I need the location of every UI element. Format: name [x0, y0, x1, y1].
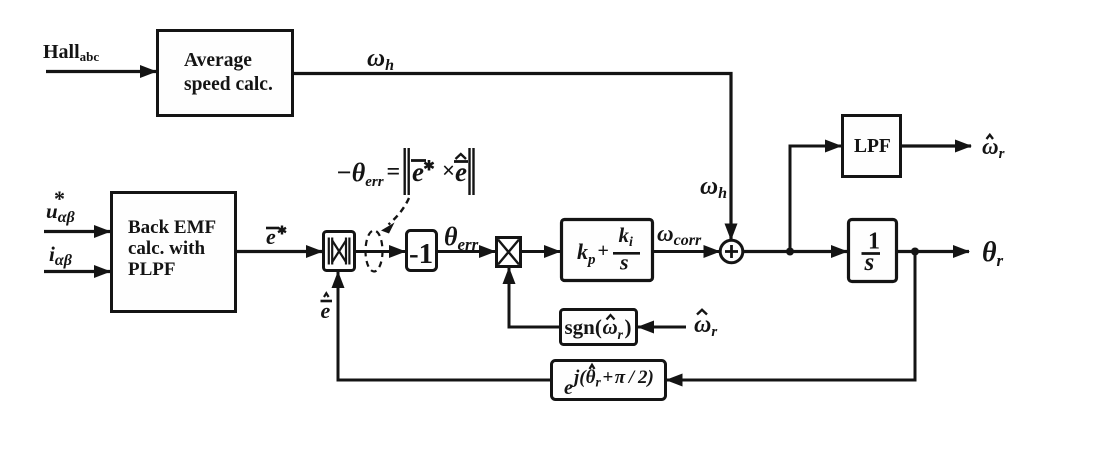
node omega_r_hat output label: [982, 134, 1005, 162]
svg-text:j(θr + π / 2): j(θr + π / 2): [571, 367, 654, 390]
svg-text:Average: Average: [184, 50, 252, 71]
svg-text:PLPF: PLPF: [128, 259, 176, 280]
wire multiplier to PI controller: [521, 250, 560, 253]
svg-text:ωcorr: ωcorr: [657, 221, 702, 249]
wire theta_err from -1 gain to multiplier: [437, 250, 495, 253]
summing junction: [720, 240, 743, 263]
block LPF: [843, 116, 901, 177]
svg-text:sgn(: sgn(: [565, 315, 602, 339]
node e-bar-star label: [266, 224, 286, 249]
svg-text:Back EMF: Back EMF: [128, 217, 216, 238]
node junction dot after integrator: [911, 248, 919, 256]
svg-text:s: s: [864, 249, 875, 276]
svg-text:e: e: [564, 377, 573, 399]
svg-text:-1: -1: [409, 238, 433, 270]
svg-text:ωr: ωr: [694, 312, 717, 340]
block gain -1: [407, 231, 437, 271]
wire LPF to omega_r_hat output: [901, 144, 971, 147]
node u*_alphabeta input label: [46, 186, 76, 226]
wire sgn block to multiplier: [509, 268, 560, 327]
wire Hall_abc to Average speed calc.: [46, 70, 156, 73]
block Back EMF calc. with PLPF: [112, 193, 236, 312]
node omega_r_hat label near sgn: [694, 310, 717, 340]
wire branch up to LPF: [790, 146, 841, 252]
wire e* from Back EMF block to cross-product block: [236, 250, 322, 253]
svg-text:*: *: [54, 186, 65, 211]
svg-text:θr: θr: [982, 237, 1004, 270]
wire summing junction to integrator 1/s: [743, 250, 848, 253]
node junction dot before LPF branch: [786, 248, 794, 256]
svg-text:iαβ: iαβ: [49, 242, 73, 269]
svg-text:LPF: LPF: [854, 136, 891, 157]
wire feedback theta_r down to exp block: [667, 252, 916, 381]
block multiplier: [497, 238, 521, 267]
svg-text:): ): [625, 315, 632, 339]
svg-text:s: s: [619, 250, 629, 275]
wire cross-product block to -1 gain: [355, 250, 405, 253]
wire i_alphabeta to Back EMF block: [44, 270, 110, 273]
wire omega_h from Average speed calc. to summing junction: [292, 74, 731, 240]
svg-text:calc. with: calc. with: [128, 238, 205, 259]
block exp j(theta_r + pi/2): [552, 361, 666, 400]
annotation dashed arrow from formula to ellipse: [381, 198, 409, 234]
block integrator 1/s: [849, 220, 897, 282]
annotation dashed ellipse: [366, 231, 383, 272]
block PI controller kp+ki/s: [562, 220, 653, 281]
svg-text:speed calc.: speed calc.: [184, 74, 273, 95]
svg-text:+: +: [598, 240, 609, 262]
wire integrator to theta_r output: [897, 250, 969, 253]
svg-text:ωh: ωh: [367, 45, 394, 74]
wire omega_r_hat into sgn block: [638, 326, 686, 329]
svg-text:ω: ω: [603, 315, 618, 339]
block cross-product norm: [324, 232, 355, 271]
svg-text:−θerr: −θerr: [336, 158, 384, 190]
svg-text:=: =: [387, 159, 401, 185]
wire u*_alphabeta to Back EMF block: [44, 230, 110, 233]
annotation formula -theta_err = ||e* x e||: [336, 148, 474, 195]
node e_hat_bar label: [321, 293, 333, 323]
wire e_hat feedback from exp block to cross-product block: [338, 272, 551, 380]
svg-text:ωh: ωh: [700, 173, 727, 202]
block sgn(omega_r_hat): [561, 310, 637, 345]
svg-text:Hallabc: Hallabc: [43, 41, 99, 64]
wire omega_corr from PI to summing junction: [653, 250, 720, 253]
svg-text:r: r: [618, 328, 624, 343]
block Average speed calc.: [158, 31, 293, 116]
svg-text:θerr: θerr: [444, 222, 479, 254]
svg-text:×: ×: [442, 158, 455, 183]
node Hall_abc input label: [43, 41, 99, 64]
